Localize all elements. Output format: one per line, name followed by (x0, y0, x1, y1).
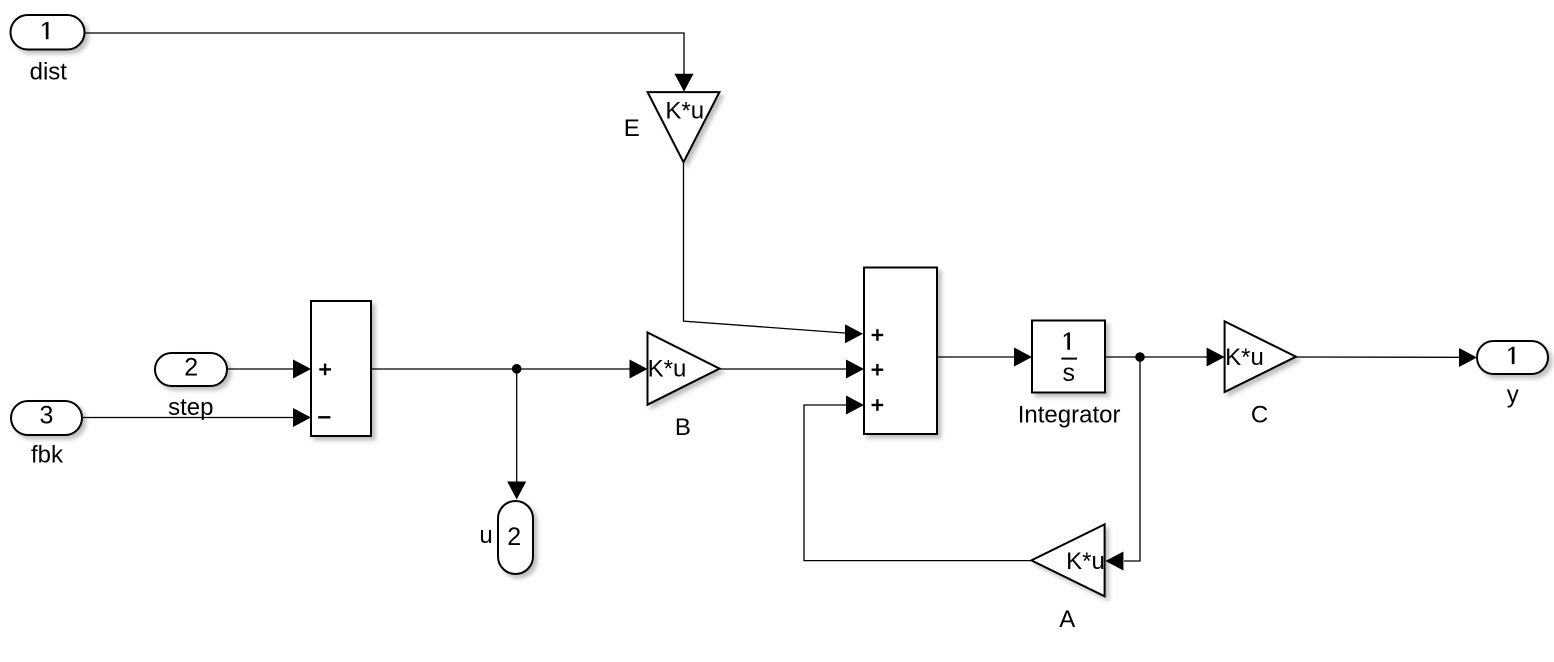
arrowhead into sum Add third input (846, 396, 864, 415)
svg-text:B: B (675, 414, 691, 441)
svg-text:K*u: K*u (665, 98, 704, 125)
arrowhead into gain C (1207, 348, 1225, 367)
svg-text:dist: dist (30, 58, 68, 85)
svg-text:s: s (1063, 359, 1076, 387)
svg-text:2: 2 (507, 523, 521, 551)
minus sign (318, 416, 330, 418)
wire from gain B to sum Add second input (720, 368, 847, 370)
svg-text:C: C (1251, 402, 1268, 429)
wire from gain E to sum Add first input (684, 162, 846, 333)
sum block Add (+ + +) (864, 268, 937, 435)
wire from gain A output to sum Add third input (804, 405, 1031, 561)
integrator block 1/s (1032, 321, 1105, 393)
wire from port 2 to sum plus input (227, 368, 294, 370)
output port 1 (y) (1477, 341, 1548, 374)
svg-text:K*u: K*u (1225, 344, 1264, 371)
svg-text:A: A (1059, 606, 1075, 633)
junction dot on Sum1 output wire (512, 364, 522, 374)
sum block Sum1 (+ -) (311, 301, 371, 436)
plus sign 2 (872, 369, 884, 371)
wire from Sum1 output to gain B (371, 368, 630, 370)
arrowhead into output port y (1459, 348, 1477, 367)
feedback wire from junction down to gain A input (1124, 357, 1140, 561)
arrowhead into sum minus input (293, 408, 311, 427)
wire from port 3 to sum minus input (82, 417, 294, 419)
arrowhead into sum plus input (293, 360, 311, 379)
svg-text:3: 3 (40, 402, 54, 430)
plus sign 1 (872, 334, 884, 336)
svg-text:2: 2 (184, 354, 198, 382)
svg-text:E: E (624, 115, 640, 142)
gain B (K*u, pointing right) (648, 333, 720, 405)
arrowhead into gain E (675, 74, 694, 92)
branch wire from junction down to output port u (516, 369, 518, 483)
svg-text:K*u: K*u (1066, 548, 1105, 575)
svg-text:Integrator: Integrator (1018, 401, 1121, 428)
arrowhead into sum Add first input (845, 324, 863, 343)
input port 2 (step) (155, 353, 227, 386)
wire from gain C to output port y (1296, 356, 1460, 358)
arrowhead into output port u (507, 482, 526, 500)
arrowhead into gain A (1105, 552, 1123, 571)
arrowhead into Integrator (1014, 348, 1032, 367)
input port 3 (fbk) (11, 401, 82, 435)
svg-text:K*u: K*u (648, 356, 687, 383)
wire from Integrator output to gain C (1105, 356, 1207, 358)
arrowhead into sum Add second input (846, 360, 864, 379)
arrowhead into gain B (630, 360, 648, 379)
svg-text:fbk: fbk (31, 442, 64, 469)
gain A (K*u, pointing left) (1031, 524, 1104, 596)
svg-text:u: u (479, 522, 492, 549)
plus sign 3 (872, 404, 884, 406)
plus sign (319, 368, 331, 370)
svg-text:y: y (1507, 382, 1519, 409)
output port 2 (u) (498, 501, 533, 574)
wire from port 1 to gain E (85, 33, 685, 76)
gain E (K*u, pointing down) (648, 92, 720, 162)
input port 1 (dist) (11, 15, 85, 50)
gain C (K*u, pointing right) (1225, 321, 1296, 392)
junction dot after Integrator (1135, 352, 1145, 362)
wire from sum Add output to Integrator (937, 356, 1015, 358)
